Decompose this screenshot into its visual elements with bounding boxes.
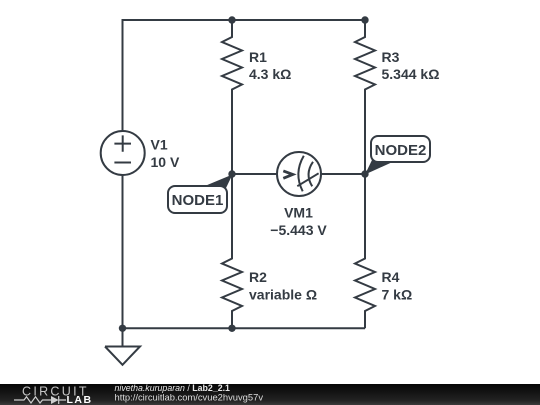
- svg-text:4.3 kΩ: 4.3 kΩ: [249, 66, 291, 82]
- resistor R4: [355, 174, 375, 328]
- footer bar: [0, 384, 540, 405]
- wire left column upper: [122, 19, 124, 131]
- voltmeter VM1: [277, 152, 321, 196]
- svg-text:R1: R1: [249, 49, 267, 65]
- ground: [105, 328, 140, 365]
- node label NODE1: [168, 175, 233, 214]
- junction NODE2: [361, 170, 368, 177]
- junction NODE1: [228, 170, 235, 177]
- wire bottom: [123, 327, 366, 329]
- svg-text:VM1: VM1: [284, 205, 313, 221]
- svg-text:NODE1: NODE1: [172, 192, 224, 209]
- wire middle left: [232, 173, 277, 175]
- wire middle right: [321, 173, 365, 175]
- svg-text:−5.443 V: −5.443 V: [270, 222, 327, 238]
- node label NODE2: [365, 136, 430, 175]
- svg-text:variable Ω: variable Ω: [249, 287, 317, 303]
- svg-text:R4: R4: [382, 269, 400, 285]
- wire top: [123, 19, 366, 21]
- svg-text:http://circuitlab.com/cvue2hvu: http://circuitlab.com/cvue2hvuvg57v: [115, 392, 264, 403]
- resistor R1: [222, 20, 242, 174]
- resistor R2: [222, 174, 242, 328]
- svg-text:V1: V1: [151, 136, 168, 152]
- voltage source V1: [101, 131, 145, 175]
- svg-text:R2: R2: [249, 269, 267, 285]
- resistor R3: [355, 20, 375, 174]
- junction top R3: [361, 16, 368, 23]
- svg-text:LAB: LAB: [67, 394, 93, 405]
- junction top R1: [228, 16, 235, 23]
- svg-text:NODE2: NODE2: [375, 142, 427, 159]
- wire left column lower: [122, 175, 124, 328]
- junction ground: [119, 325, 126, 332]
- svg-text:5.344 kΩ: 5.344 kΩ: [382, 66, 440, 82]
- svg-text:7 kΩ: 7 kΩ: [382, 287, 413, 303]
- logo zigzag and diode: [14, 396, 66, 404]
- svg-text:R3: R3: [382, 49, 400, 65]
- junction bottom R2: [228, 325, 235, 332]
- svg-text:10 V: 10 V: [151, 154, 180, 170]
- node dots: [119, 16, 369, 332]
